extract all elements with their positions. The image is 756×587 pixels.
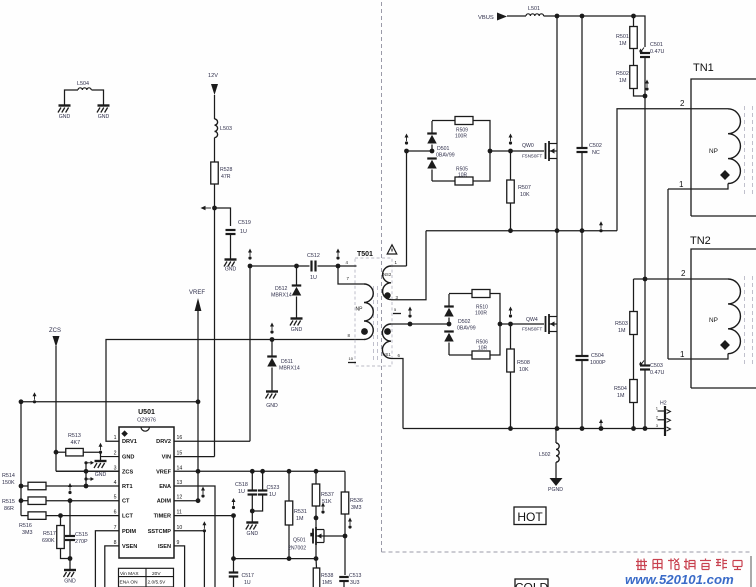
svg-text:2.0/5.5V: 2.0/5.5V (148, 580, 167, 586)
svg-text:7: 7 (114, 525, 117, 531)
wire (21, 500, 28, 502)
node (231, 513, 236, 518)
svg-text:QW4: QW4 (526, 317, 538, 323)
svg-text:8: 8 (114, 540, 117, 546)
wire QW0 drain (556, 16, 558, 144)
wire (60, 516, 62, 526)
phase dot TN2 (720, 340, 730, 350)
node (68, 556, 73, 561)
node (555, 228, 560, 233)
svg-text:VIN: VIN (162, 455, 171, 461)
svg-text:10: 10 (349, 356, 354, 361)
inductor L503 (215, 119, 218, 138)
svg-text:10: 10 (177, 525, 183, 531)
svg-text:16: 16 (177, 435, 183, 441)
wire (230, 234, 232, 259)
inductor L504 (78, 88, 91, 90)
winding T501 NP (364, 284, 373, 340)
wire (634, 89, 646, 97)
IC pin1 mark (121, 430, 128, 437)
wire (21, 401, 198, 403)
wire TIMER rail (234, 558, 317, 560)
diode D511 (267, 355, 277, 357)
svg-text:Q501: Q501 (293, 538, 306, 544)
wire pin11 TIMER (174, 515, 234, 517)
svg-text:U501: U501 (138, 409, 155, 416)
wire (271, 340, 273, 357)
wire (644, 96, 646, 279)
wire (581, 231, 583, 356)
transformer TN2 core (744, 276, 746, 364)
svg-text:3M3: 3M3 (22, 530, 33, 536)
svg-text:9: 9 (177, 540, 180, 546)
wire (214, 138, 216, 162)
wire QW0 source (556, 159, 558, 231)
svg-text:11: 11 (177, 510, 182, 516)
node (58, 513, 63, 518)
wire pin10 SSTCMP (174, 531, 204, 587)
resistor R528 (211, 162, 219, 184)
svg-text:GND: GND (247, 531, 259, 537)
svg-text:NP: NP (709, 317, 718, 324)
transistor QW0 (545, 143, 547, 159)
svg-text:150K: 150K (2, 480, 15, 486)
svg-text:C501: C501 (650, 42, 663, 48)
IC notch (141, 427, 149, 431)
node (287, 556, 292, 561)
wire (633, 279, 635, 312)
capacitor C519 (226, 229, 236, 231)
wire QW4 drain (556, 231, 558, 317)
wire (644, 279, 646, 366)
wire (69, 501, 71, 536)
svg-text:C517: C517 (242, 573, 255, 579)
svg-text:20V: 20V (152, 571, 161, 577)
wire (490, 324, 500, 355)
svg-text:3U3: 3U3 (350, 580, 360, 586)
net stub (599, 427, 602, 430)
svg-text:86R: 86R (4, 506, 14, 512)
node (631, 426, 636, 431)
wire (633, 403, 635, 429)
svg-text:RT1: RT1 (122, 484, 133, 490)
svg-text:QW0: QW0 (522, 143, 534, 149)
wire (555, 462, 557, 478)
resistor R538 (313, 568, 320, 587)
wire (449, 293, 472, 295)
svg-text:1U: 1U (240, 229, 247, 235)
node (555, 426, 560, 431)
svg-text:VREF: VREF (156, 469, 172, 475)
wire Q501 source (315, 545, 317, 559)
svg-text:C515: C515 (75, 532, 88, 538)
wire (510, 151, 512, 180)
svg-text:T501: T501 (357, 251, 373, 258)
node (643, 94, 648, 99)
wire (431, 121, 433, 134)
wire (21, 485, 28, 487)
wire (633, 16, 635, 27)
node (314, 516, 319, 521)
svg-text:R504: R504 (614, 386, 627, 392)
svg-text:1U: 1U (269, 492, 276, 498)
resistor R537 (312, 484, 320, 506)
svg-text:GND: GND (95, 472, 107, 478)
svg-text:14: 14 (177, 465, 183, 471)
wire pin15 VIN (174, 456, 215, 458)
svg-text:C512: C512 (307, 253, 320, 259)
svg-text:690K: 690K (42, 538, 55, 544)
node (19, 498, 24, 503)
svg-text:R501: R501 (616, 34, 629, 40)
resistor R501 (630, 27, 638, 49)
wire NS1 bottom (391, 359, 403, 429)
node (294, 264, 299, 269)
wire (581, 152, 583, 231)
HOT section dashed boundary (horizontal) (382, 551, 753, 553)
svg-text:OZ9976: OZ9976 (137, 418, 156, 424)
wire DRV2 net (250, 265, 310, 267)
wire (507, 15, 526, 17)
svg-text:10R: 10R (458, 173, 468, 179)
svg-text:3: 3 (114, 465, 117, 471)
svg-text:www.520101.com: www.520101.com (625, 572, 734, 587)
winding TN2 NP (728, 279, 740, 354)
svg-text:R531: R531 (294, 509, 307, 515)
wire TIMER riser (233, 516, 235, 559)
node (555, 14, 560, 19)
node (84, 484, 89, 489)
wire (449, 354, 472, 356)
svg-text:R517: R517 (43, 531, 56, 537)
resistor R517 (57, 526, 65, 549)
svg-text:47R: 47R (221, 174, 231, 180)
resistor R514 (28, 482, 46, 490)
node (250, 509, 255, 514)
svg-text:ENA: ENA (159, 484, 171, 490)
wire QW4 source (556, 332, 558, 429)
node (508, 322, 513, 327)
wire (296, 297, 298, 319)
svg-text:2: 2 (681, 269, 686, 278)
node (248, 264, 253, 269)
diode D512 (292, 284, 302, 286)
svg-text:F5N50FT: F5N50FT (522, 154, 542, 160)
node 12V junction (212, 206, 217, 211)
resistor R505 (455, 177, 473, 185)
label COLD box (515, 579, 548, 587)
phase dot (384, 292, 390, 298)
svg-text:270P: 270P (75, 539, 88, 545)
wire (20, 402, 22, 516)
svg-text:TN2: TN2 (690, 235, 711, 247)
svg-text:1U: 1U (310, 275, 317, 281)
node (404, 149, 409, 154)
svg-text:0.47U: 0.47U (650, 49, 664, 55)
diode D502a (444, 305, 454, 307)
phase dot TN1 (720, 170, 730, 180)
svg-text:ZCS: ZCS (122, 469, 133, 475)
ground (95, 460, 107, 462)
svg-text:6: 6 (114, 510, 117, 516)
wire (315, 471, 317, 484)
ground (246, 521, 258, 523)
svg-text:C502: C502 (589, 143, 602, 149)
svg-text:LCT: LCT (122, 514, 133, 520)
node (508, 426, 513, 431)
svg-text:SSTCMP: SSTCMP (148, 529, 172, 535)
capacitor C518 (248, 489, 257, 491)
transformer TN2 box (691, 249, 756, 388)
wire (252, 495, 262, 512)
svg-text:ADIM: ADIM (157, 499, 172, 505)
transformer TN1 core (744, 106, 746, 194)
wire (262, 471, 264, 490)
node (508, 228, 513, 233)
capacitor C502 (577, 147, 588, 149)
svg-text:F5N50FT: F5N50FT (522, 327, 542, 333)
node (408, 322, 413, 327)
wire (490, 294, 500, 325)
svg-text:L503: L503 (220, 126, 232, 132)
svg-text:4K7: 4K7 (71, 440, 81, 446)
svg-text:15: 15 (177, 451, 183, 457)
node (580, 426, 585, 431)
svg-text:R513: R513 (68, 433, 81, 439)
diode D501a (427, 132, 437, 134)
wire TN1 pin1 (668, 184, 728, 190)
svg-text:D501: D501 (437, 146, 450, 152)
node (196, 399, 201, 404)
wire (251, 495, 253, 523)
svg-text:C503: C503 (650, 363, 663, 369)
svg-text:4: 4 (114, 480, 117, 486)
svg-text:H2: H2 (660, 401, 667, 407)
wire (344, 471, 346, 492)
node (508, 149, 513, 154)
svg-text:C523: C523 (267, 485, 280, 491)
wire (391, 323, 449, 325)
label HOT box (514, 507, 546, 525)
wire (288, 525, 290, 559)
watermark chinese (636, 559, 742, 570)
svg-text:DRV2: DRV2 (156, 439, 171, 445)
svg-text:D511: D511 (281, 359, 293, 365)
svg-text:GND: GND (266, 403, 278, 409)
svg-text:R507: R507 (518, 185, 531, 191)
capacitor C523 (258, 489, 268, 491)
wire switch-node rail (426, 230, 617, 232)
svg-text:VREF: VREF (189, 290, 205, 296)
svg-text:100R: 100R (455, 134, 467, 140)
net stub (599, 229, 602, 232)
node T501 pin4/7 junction (336, 264, 341, 269)
wire (214, 95, 216, 119)
wire pin8 VSEN (105, 546, 119, 587)
wire (633, 335, 635, 380)
inductor L501 (526, 14, 544, 16)
wire (691, 278, 728, 280)
wire pin14 VREF row (174, 470, 345, 472)
wire (555, 429, 557, 444)
svg-text:12: 12 (177, 495, 183, 501)
resistor R502 (630, 66, 638, 89)
node (19, 484, 24, 489)
node (196, 498, 201, 503)
net stub (84, 477, 87, 480)
wire (448, 343, 450, 356)
inductor L502 (556, 443, 559, 462)
svg-text:0BAV99: 0BAV99 (436, 153, 455, 159)
wire pin13 ENA (174, 486, 215, 587)
node (270, 337, 275, 342)
svg-text:ZCS: ZCS (49, 328, 61, 334)
svg-text:MBRX14: MBRX14 (279, 366, 300, 372)
COLD section boundary right edge (750, 556, 752, 587)
wire ZCS vertical (55, 346, 57, 471)
diode D501b (427, 157, 437, 159)
wire (288, 471, 290, 501)
svg-text:L501: L501 (528, 6, 540, 12)
svg-text:COLD: COLD (515, 581, 549, 587)
wire (633, 49, 635, 66)
phase dot (361, 328, 368, 335)
wire (431, 170, 433, 182)
svg-text:NS2: NS2 (383, 272, 392, 277)
wire (473, 151, 490, 181)
wire pin2 GND (101, 456, 120, 458)
net stub (33, 400, 36, 403)
wire (644, 57, 646, 96)
wire (644, 370, 646, 429)
svg-text:NC: NC (592, 150, 600, 156)
vertical stub x86 (85, 462, 87, 486)
svg-text:GND: GND (64, 579, 76, 585)
capacitor C503 (640, 364, 650, 366)
table Vin MAX (119, 568, 174, 587)
svg-text:5: 5 (114, 495, 117, 501)
node (580, 228, 585, 233)
svg-text:ISEN: ISEN (158, 544, 171, 550)
wire (46, 485, 119, 487)
node (231, 556, 236, 561)
wire (174, 440, 250, 442)
svg-text:GND: GND (122, 455, 134, 461)
node (68, 498, 73, 503)
node (580, 14, 585, 19)
svg-text:R502: R502 (616, 71, 629, 77)
wire (46, 515, 119, 517)
node (250, 469, 255, 474)
svg-text:1U: 1U (244, 580, 251, 586)
node (631, 14, 636, 19)
wire (251, 471, 253, 490)
svg-text:1M: 1M (619, 78, 627, 84)
wire (214, 184, 216, 208)
wire DRV2 riser (249, 266, 251, 441)
svg-text:R538: R538 (321, 573, 334, 579)
wire (544, 16, 645, 47)
connector H2 (664, 406, 666, 436)
resistor R507 (507, 180, 515, 203)
svg-text:R537: R537 (321, 492, 334, 498)
svg-text:1M: 1M (618, 328, 626, 334)
wire TN2 pin1 (668, 354, 728, 360)
svg-text:0BAV99: 0BAV99 (457, 326, 476, 332)
wire (315, 506, 317, 527)
wire (691, 108, 728, 110)
svg-text:NP: NP (356, 307, 364, 313)
svg-text:2: 2 (114, 451, 117, 457)
svg-text:10R: 10R (478, 346, 488, 352)
svg-text:C513: C513 (349, 573, 362, 579)
svg-text:0.47U: 0.47U (650, 370, 664, 376)
ground (98, 104, 110, 106)
net stub (203, 529, 206, 532)
wire VREF vertical (197, 310, 199, 501)
wire (324, 535, 345, 537)
svg-text:1: 1 (114, 435, 117, 441)
node (430, 149, 435, 154)
wire DRV1 to T501 pin8 (106, 340, 364, 442)
wire (296, 266, 298, 285)
wire pin9 ISEN (174, 546, 185, 587)
wire (667, 189, 669, 359)
svg-text:13: 13 (177, 480, 183, 486)
capacitor C504 (576, 355, 589, 357)
wire (61, 549, 71, 570)
wire (83, 452, 100, 460)
svg-text:1: 1 (679, 180, 684, 189)
transformer T501 outline (355, 258, 392, 366)
resistor R504 (630, 380, 638, 403)
svg-text:1: 1 (680, 350, 685, 359)
wire pin3 row (56, 470, 119, 472)
node (287, 469, 292, 474)
wire (69, 540, 71, 559)
svg-text:C518: C518 (235, 482, 248, 488)
svg-text:1M: 1M (619, 41, 627, 47)
svg-text:GND: GND (98, 114, 110, 120)
svg-text:1M: 1M (296, 516, 304, 522)
svg-text:VSEN: VSEN (122, 544, 137, 550)
node (84, 469, 89, 474)
wire T501 pin7 (338, 266, 364, 284)
IC U501 box (119, 427, 174, 558)
wire (56, 451, 66, 453)
net stub (84, 461, 87, 464)
wire PGND rail (403, 428, 665, 430)
wire (271, 368, 273, 392)
wire pin12 ADIM (174, 500, 198, 502)
svg-text:PGND: PGND (548, 487, 563, 493)
node (314, 556, 319, 561)
capacitor C517 (229, 571, 239, 573)
resistor R506 (472, 351, 490, 359)
svg-text:TN1: TN1 (693, 62, 714, 74)
ground (266, 390, 278, 392)
pin 5 stub (393, 313, 401, 315)
node (260, 469, 265, 474)
wire (344, 514, 346, 575)
resistor R515 (28, 497, 46, 505)
node (447, 322, 452, 327)
svg-text:R528: R528 (220, 167, 233, 173)
wire (215, 208, 231, 226)
wire T501 pin4 stub (338, 265, 357, 267)
svg-text:D502: D502 (458, 319, 471, 325)
resistor R516 (28, 512, 46, 519)
